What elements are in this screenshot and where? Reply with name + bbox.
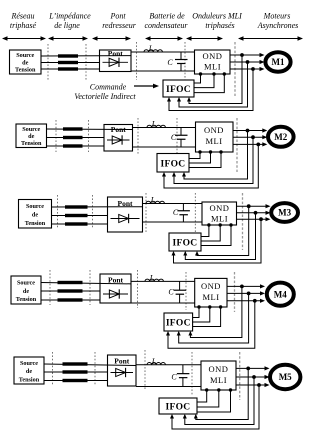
line impedance Z1A (thick bar) [58, 54, 78, 57]
line impedance Z3A (thick bar) [65, 205, 88, 208]
svg-text:L’impédance: L’impédance [48, 12, 91, 21]
section divider dashed row4.2 [89, 270, 91, 305]
gate signal wire g2 IFOC->inverter row1 [194, 72, 216, 87]
span arrow pont section [92, 36, 131, 40]
section divider dashed row1.1 [47, 44, 49, 80]
section divider dashed row4 (inverter/motor) [234, 272, 236, 312]
svg-text:Tension: Tension [16, 296, 37, 303]
svg-text:de: de [28, 133, 34, 140]
svg-text:Tension: Tension [25, 220, 46, 227]
svg-text:M4: M4 [274, 289, 287, 299]
wire phase W inverter->motor row4 [227, 299, 265, 303]
svg-text:Pont: Pont [109, 12, 126, 21]
span arrow onduleurs section [186, 36, 223, 40]
rectifier bridge PD4: Pont box [100, 274, 131, 303]
svg-text:OND: OND [209, 364, 229, 374]
current feedback wire i1 row2 [182, 131, 248, 180]
svg-text:triphasé: triphasé [10, 21, 37, 30]
junction node on phase U row4 [240, 285, 244, 289]
inverter U1: OND MLI [195, 50, 231, 74]
gate signal wire g1 IFOC->inverter row2 [189, 150, 202, 158]
section divider dashed row5.3 [144, 350, 146, 390]
section divider dashed row4.3 [137, 270, 139, 308]
gate signal wire g3 IFOC->inverter row2 [189, 150, 223, 167]
svg-text:M5: M5 [279, 372, 292, 382]
junction node on phase U row1 [240, 53, 244, 57]
gate signal wire g1 IFOC->inverter row4 [193, 305, 201, 317]
svg-text:Pont: Pont [108, 49, 124, 58]
current feedback wire i3 row1 [167, 69, 253, 111]
current feedback wire i1 row1 [187, 55, 242, 104]
junction node on phase V row5 [252, 375, 256, 379]
wire phase B row1 [41, 62, 100, 64]
voltage source V1: Source de Tension [10, 50, 42, 74]
line impedance Z4C (thick bar) [58, 298, 83, 301]
wire phase V inverter->motor row5 [236, 375, 270, 379]
svg-text:OND: OND [203, 51, 223, 61]
section divider dashed row1.3 [136, 42, 138, 80]
wire phase C row3 [52, 223, 108, 225]
wire phase V inverter->motor row1 [230, 60, 265, 64]
rectifier bridge PD2: Pont box [104, 125, 133, 152]
wire phase U inverter->motor row5 [236, 366, 270, 370]
section divider dashed row3.4 [194, 193, 196, 236]
inverter U5: OND MLI [201, 361, 236, 390]
section divider dashed row1.2 [85, 44, 87, 80]
rectifier bridge PD1: Pont box [100, 49, 132, 71]
wire DC- rail row2 [133, 146, 196, 148]
wire phase U inverter->motor row4 [227, 284, 265, 288]
wire phase W inverter->motor row3 [237, 217, 271, 221]
svg-text:M1: M1 [272, 57, 285, 67]
line impedance Z3C (thick bar) [65, 222, 88, 225]
svg-text:redresseur: redresseur [102, 21, 137, 30]
section divider dashed row1.4 [184, 42, 186, 84]
DC-link capacitor C3 [173, 204, 190, 223]
column header: Reseau triphase [10, 12, 37, 31]
svg-text:L: L [151, 120, 157, 129]
svg-text:OND: OND [210, 203, 230, 213]
gate signal wire g2 IFOC->inverter row4 [193, 305, 212, 322]
svg-text:de: de [22, 59, 28, 66]
line impedance Z5B (thick bar) [63, 370, 88, 373]
svg-text:Pont: Pont [108, 275, 124, 284]
line impedance Z4A (thick bar) [58, 281, 83, 284]
current feedback wire i3 row2 [162, 144, 258, 188]
span arrow moteurs section [238, 36, 303, 40]
wire phase C row4 [41, 299, 100, 301]
svg-text:MLI: MLI [202, 292, 219, 302]
wire DC- rail row4 [131, 302, 195, 304]
current feedback wire i2 row3 [183, 213, 255, 260]
diode D3 inside rectifier [111, 214, 140, 223]
wire phase V inverter->motor row3 [237, 211, 271, 215]
gate signal wire g1 IFOC->inverter row3 [201, 223, 211, 236]
label: Commande Vectorielle Indirect [74, 83, 136, 102]
section divider dashed row3 (inverter/motor) [242, 193, 244, 250]
wire DC+ rail row3 [143, 203, 203, 205]
svg-text:Batterie de: Batterie de [149, 12, 185, 21]
svg-text:OND: OND [201, 281, 221, 291]
wire phase W inverter->motor row2 [233, 142, 267, 146]
svg-text:Commande: Commande [90, 83, 127, 92]
wire phase C row5 [44, 380, 108, 382]
line impedance Z1B (thick bar) [58, 61, 78, 64]
current feedback wire i3 row5 [170, 385, 259, 429]
svg-text:MLI: MLI [204, 62, 221, 72]
line impedance Z2A (thick bar) [63, 127, 83, 130]
junction node on phase W row3 [259, 217, 263, 221]
svg-text:Vectorielle Indirect: Vectorielle Indirect [74, 92, 136, 101]
DC-link capacitor C5 [171, 365, 189, 387]
wire DC+ rail row1 [131, 51, 195, 53]
DC-link capacitor C2 [171, 128, 188, 148]
section divider dashed row3.3 [145, 193, 147, 232]
wire phase U inverter->motor row2 [233, 128, 267, 132]
svg-text:C: C [168, 288, 174, 297]
induction motor M4 [267, 283, 294, 306]
induction motor M3 [271, 203, 298, 222]
gate signal wire g1 IFOC->inverter row1 [194, 72, 202, 83]
inverter U4: OND MLI [195, 278, 227, 307]
svg-text:IFOC: IFOC [166, 403, 191, 413]
gate signal wire g2 IFOC->inverter row2 [189, 150, 212, 163]
junction node on phase V row4 [247, 292, 251, 296]
section divider dashed row1 (inverter/motor) [234, 42, 236, 96]
current feedback wire i2 row2 [172, 137, 253, 183]
current feedback wire i1 row5 [194, 368, 248, 419]
voltage source V4: Source de Tension [11, 276, 41, 304]
current feedback wire i2 row1 [177, 62, 248, 107]
controller IFOC4 [164, 313, 193, 331]
wire phase A row3 [52, 206, 143, 208]
section divider dashed row4.4 [185, 272, 187, 310]
line impedance Z1C (thick bar) [58, 67, 78, 70]
induction motor M1 [265, 52, 290, 71]
section divider dashed row3.2 [92, 195, 94, 228]
svg-text:Onduleurs MLI: Onduleurs MLI [192, 12, 242, 21]
junction node on phase U row5 [246, 367, 250, 371]
span arrow batterie section [145, 36, 183, 40]
svg-text:Source: Source [22, 126, 40, 133]
section divider dashed row5.2 [94, 352, 96, 386]
svg-text:IFOC: IFOC [173, 239, 198, 249]
diode D5 inside rectifier [111, 368, 134, 377]
svg-text:de: de [32, 212, 38, 219]
induction motor M2 [268, 127, 294, 147]
junction node on phase U row2 [246, 129, 250, 133]
smoothing inductor L2 [147, 120, 165, 129]
wire phase U inverter->motor row3 [237, 204, 271, 208]
DC-link capacitor C1 [167, 52, 187, 71]
wire DC+ rail row4 [131, 280, 195, 282]
wire DC- rail row5 [136, 386, 201, 388]
smoothing inductor L1 [144, 44, 162, 53]
gate signal wire g3 IFOC->inverter row3 [201, 223, 233, 245]
svg-text:Tension: Tension [15, 67, 36, 74]
svg-text:Asynchrones: Asynchrones [257, 21, 299, 30]
section divider dashed row2.3 [137, 118, 139, 155]
induction motor M5 [270, 365, 300, 389]
wire phase A row4 [41, 283, 131, 284]
svg-text:C: C [171, 373, 177, 382]
svg-text:L: L [151, 357, 157, 366]
wire DC- rail row3 [143, 221, 203, 223]
line impedance Z5C (thick bar) [63, 379, 88, 382]
svg-text:MLI: MLI [205, 136, 222, 146]
DC-link capacitor C4 [168, 281, 186, 303]
current feedback wire i1 row4 [188, 286, 242, 337]
wire phase C row1 [41, 68, 100, 70]
current feedback wire i1 row3 [195, 206, 249, 255]
controller IFOC1 [163, 80, 194, 97]
rectifier bridge PD3: Pont box [108, 197, 143, 232]
controller IFOC5 [159, 398, 197, 414]
svg-text:L: L [149, 274, 155, 283]
section divider dashed row2.1 [55, 120, 57, 152]
wire phase W inverter->motor row5 [236, 383, 270, 387]
voltage source V3: Source de Tension [19, 200, 52, 229]
section divider dashed row2 (inverter/motor) [236, 118, 238, 172]
junction node on phase W row5 [257, 383, 261, 387]
junction node on phase V row3 [254, 211, 258, 215]
svg-text:C: C [173, 208, 179, 217]
svg-text:C: C [167, 58, 173, 67]
wire phase B row5 [44, 371, 108, 373]
controller IFOC2 [157, 154, 189, 173]
wire phase W inverter->motor row1 [230, 67, 265, 71]
svg-text:Source: Source [20, 360, 38, 367]
svg-text:L: L [148, 44, 154, 53]
svg-text:de: de [26, 368, 32, 375]
wire phase C row2 [47, 145, 105, 147]
smoothing inductor L3 [146, 196, 164, 205]
gate signal wire g3 IFOC->inverter row5 [197, 388, 232, 412]
current feedback wire i2 row5 [183, 377, 254, 425]
inverter U3: OND MLI [202, 202, 237, 225]
column header: Batterie de condensateur [144, 12, 188, 31]
section divider dashed row2.4 [176, 118, 178, 158]
gate signal wire g3 IFOC->inverter row1 [194, 72, 226, 92]
line impedance Z3B (thick bar) [65, 214, 88, 217]
svg-text:de ligne: de ligne [54, 21, 80, 30]
svg-text:OND: OND [204, 125, 224, 135]
svg-text:Source: Source [26, 203, 44, 210]
svg-text:de: de [23, 288, 29, 295]
svg-text:condensateur: condensateur [144, 21, 188, 30]
voltage source V2: Source de Tension [16, 124, 47, 148]
column header: Pont redresseur [102, 12, 137, 31]
wire phase U inverter->motor row1 [230, 53, 265, 57]
wire phase B row2 [47, 137, 105, 139]
gate signal wire g2 IFOC->inverter row5 [197, 388, 221, 407]
wire phase A row5 [44, 364, 136, 366]
gate signal wire g1 IFOC->inverter row5 [197, 388, 208, 402]
svg-text:M2: M2 [274, 132, 287, 142]
junction node on phase W row1 [251, 67, 255, 71]
diode D1 inside rectifier [103, 58, 129, 67]
column header: impedance de ligne [48, 12, 91, 31]
svg-text:triphasés: triphasés [205, 21, 234, 30]
wire phase A row1 [41, 55, 131, 57]
svg-text:Tension: Tension [21, 140, 42, 147]
rectifier bridge PD5: Pont box [108, 355, 137, 386]
smoothing inductor L4 [145, 274, 163, 283]
svg-text:IFOC: IFOC [166, 85, 191, 95]
svg-text:L: L [150, 196, 156, 205]
column header: Onduleurs MLI triphases [192, 12, 242, 31]
section divider dashed row4.1 [49, 270, 51, 305]
wire phase A row2 [47, 128, 133, 131]
svg-text:MLI: MLI [210, 375, 227, 385]
svg-text:MLI: MLI [211, 214, 228, 224]
svg-text:Pont: Pont [114, 356, 130, 365]
svg-text:Source: Source [17, 279, 35, 286]
svg-text:IFOC: IFOC [166, 319, 191, 329]
junction node on phase V row2 [251, 135, 255, 139]
current feedback wire i2 row4 [177, 293, 249, 343]
span arrow impedance section [48, 36, 88, 40]
smoothing inductor L5 [147, 357, 165, 366]
diode D4 inside rectifier [103, 289, 128, 298]
wire DC- rail row1 [131, 70, 195, 72]
svg-text:Tension: Tension [19, 376, 40, 383]
svg-text:IFOC: IFOC [161, 159, 186, 169]
svg-text:Réseau: Réseau [10, 12, 34, 21]
junction node on phase W row4 [253, 299, 257, 303]
current feedback wire i3 row4 [166, 301, 255, 349]
section divider dashed row5.1 [52, 352, 54, 386]
wire phase V inverter->motor row2 [233, 135, 267, 139]
svg-text:C: C [171, 133, 177, 142]
section divider dashed row2.2 [88, 120, 90, 152]
svg-text:Source: Source [16, 52, 34, 59]
column header: Moteurs Asynchrones [257, 12, 299, 31]
section divider dashed row3.1 [57, 195, 59, 228]
gate signal wire g2 IFOC->inverter row3 [201, 223, 222, 241]
gate signal wire g3 IFOC->inverter row4 [193, 305, 223, 326]
wire phase B row4 [41, 290, 100, 292]
line impedance Z4B (thick bar) [58, 289, 83, 292]
svg-text:M3: M3 [278, 208, 291, 218]
current feedback wire i3 row3 [172, 219, 262, 263]
junction node on phase W row2 [256, 143, 260, 147]
diode D2 inside rectifier [107, 135, 130, 144]
wire phase V inverter->motor row4 [227, 291, 265, 295]
inverter U2: OND MLI [196, 122, 234, 152]
line impedance Z2C (thick bar) [63, 144, 83, 147]
line impedance Z2B (thick bar) [63, 136, 83, 139]
wire DC+ rail row5 [136, 364, 201, 366]
section divider dashed row5 (inverter/motor) [239, 352, 241, 400]
junction node on phase U row3 [247, 204, 251, 208]
wire phase B row3 [52, 215, 108, 217]
arrow command -> IFOC1 [134, 84, 159, 89]
svg-text:Moteurs: Moteurs [263, 12, 291, 21]
voltage source V5: Source de Tension [14, 357, 44, 384]
junction node on phase V row1 [246, 60, 250, 64]
wire DC+ rail row2 [133, 127, 196, 129]
section divider dashed row5.4 [191, 352, 193, 395]
span arrow reseau section [2, 36, 46, 40]
line impedance Z5A (thick bar) [63, 362, 88, 365]
controller IFOC3 [169, 233, 201, 251]
